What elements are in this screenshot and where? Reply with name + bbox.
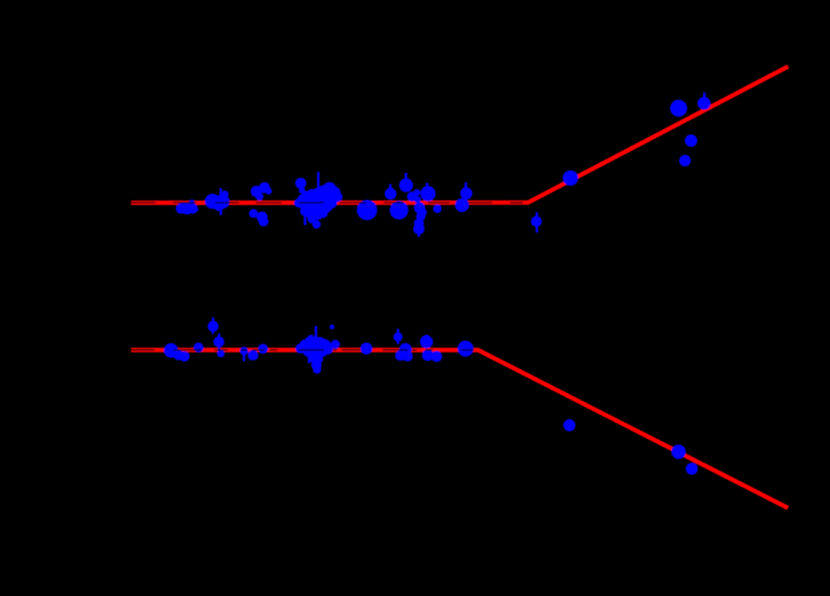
bottom panel data point group D' <box>214 336 225 347</box>
bottom panel data point group O' <box>563 419 697 474</box>
bottom panel data point group F' <box>240 344 268 361</box>
top panel data point group E <box>357 200 377 220</box>
top panel data point group D <box>294 178 343 229</box>
bottom panel data point group L' <box>395 343 413 362</box>
top panel data point group F <box>385 178 442 234</box>
top panel data point group H <box>531 216 542 227</box>
top panel data point group G <box>455 187 472 212</box>
bottom panel data point group I' <box>331 340 340 349</box>
bottom panel data point group J' <box>360 343 372 355</box>
top panel horizontal x-error bars (dark overlay) <box>131 202 523 204</box>
top fit line (red): pre-glitch level + rising post-glitch slope <box>131 66 788 202</box>
top panel vertical error bars (blue) <box>221 93 705 237</box>
bottom panel data point group G' <box>296 336 334 374</box>
bottom panel data point group E' <box>217 350 225 358</box>
bottom panel data point group C' <box>208 321 219 332</box>
bottom panel data point group B' <box>194 343 204 353</box>
top panel data point group B <box>205 191 230 212</box>
bottom panel horizontal x-error bars (dark overlay) <box>131 349 474 351</box>
bottom panel data point group H' <box>330 325 335 330</box>
bottom panel data point group A' <box>164 343 190 361</box>
top panel data point group I <box>563 97 711 186</box>
top panel data point group C <box>249 182 272 226</box>
bottom fit line (red): pre-glitch level + falling post-glitch slope <box>131 350 788 508</box>
top panel data point group A <box>176 199 199 214</box>
bottom panel data point group N' <box>458 341 474 357</box>
bottom panel data point group M' <box>420 335 442 362</box>
bottom panel vertical error bars (blue) <box>213 318 427 364</box>
bottom panel data point group K' <box>393 332 402 341</box>
